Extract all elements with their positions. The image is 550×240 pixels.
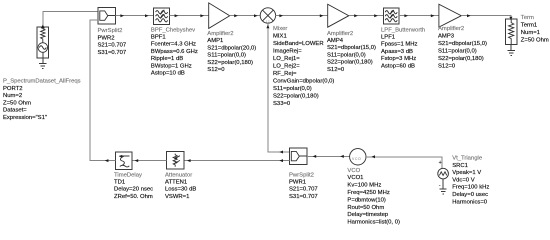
wire SRC1 to VCO1 [366, 155, 442, 168]
svg-text:Ripple=1 dB: Ripple=1 dB [151, 56, 183, 62]
svg-text:BWstop=1 GHz: BWstop=1 GHz [151, 63, 192, 69]
svg-text:Term1: Term1 [521, 23, 537, 29]
BPF1 value labels [151, 27, 198, 76]
svg-text:Rout=50 Ohm: Rout=50 Ohm [347, 205, 384, 211]
bandpass filter BPF1 [154, 8, 170, 25]
svg-text:ZRef=50. Ohm: ZRef=50. Ohm [114, 194, 153, 200]
svg-text:S12=0: S12=0 [438, 64, 456, 70]
svg-text:Fstop=3 MHz: Fstop=3 MHz [381, 56, 416, 62]
svg-text:Attenuator: Attenuator [165, 172, 192, 178]
amplifier AMP1 [209, 3, 230, 29]
svg-text:Vdc=0 V: Vdc=0 V [452, 177, 475, 183]
svg-text:Num=1: Num=1 [521, 30, 540, 36]
svg-text:Mixer: Mixer [273, 26, 287, 32]
power splitter PWR2 [98, 8, 115, 25]
svg-text:LO_Rej2=: LO_Rej2= [273, 64, 300, 70]
wire TD1 to PWR2 pin3 [90, 20, 115, 162]
wire PORT2 to PWR2 pin1 [43, 12, 98, 26]
attenuator ATTEN1 [166, 152, 183, 169]
time delay TD1 [115, 152, 132, 169]
svg-text:S22=polar(0,180): S22=polar(0,180) [207, 60, 253, 66]
svg-text:+: + [439, 160, 442, 166]
wire ATTEN1 to TD1 [132, 159, 166, 162]
svg-text:Kv=100 MHz: Kv=100 MHz [347, 183, 381, 189]
svg-text:Loss=30 dB: Loss=30 dB [165, 187, 196, 193]
svg-text:TimeDelay: TimeDelay [114, 172, 142, 178]
svg-text:S12=0: S12=0 [327, 67, 345, 73]
svg-text:S21=dbpolar(15,0): S21=dbpolar(15,0) [438, 41, 487, 47]
svg-text:S12=0: S12=0 [207, 67, 225, 73]
svg-text:VCO1: VCO1 [347, 175, 363, 181]
svg-text:S11=polar(0,0): S11=polar(0,0) [438, 49, 477, 55]
svg-text:Z=50 Ohm: Z=50 Ohm [3, 100, 31, 106]
termination Term1 [506, 19, 517, 45]
MIX1 value labels [273, 26, 334, 107]
ground of PORT2 [39, 58, 46, 68]
svg-text:S22=polar(0,180): S22=polar(0,180) [327, 60, 373, 66]
svg-text:Term: Term [521, 15, 534, 21]
amplifier AMP4 [328, 4, 349, 27]
power splitter PWR1 [290, 148, 307, 165]
svg-text:Amplifier2: Amplifier2 [438, 26, 464, 32]
svg-text:Delay=20 nsec: Delay=20 nsec [114, 187, 153, 193]
oscillator VCO1 [350, 149, 366, 165]
svg-text:S21=0.707: S21=0.707 [98, 43, 127, 49]
svg-text:Freq=100 kHz: Freq=100 kHz [452, 185, 489, 191]
wire PWR2 to BPF1 [115, 14, 153, 17]
ground of SRC1 [440, 179, 447, 194]
svg-text:S22=polar(0,180): S22=polar(0,180) [273, 94, 319, 100]
svg-text:PwrSplit2: PwrSplit2 [98, 28, 123, 34]
svg-text:Apass=3 dB: Apass=3 dB [381, 49, 413, 55]
wire BPF1 to AMP1 [169, 14, 208, 17]
svg-text:PWR2: PWR2 [98, 35, 115, 41]
svg-text:Fpass=1 MHz: Fpass=1 MHz [381, 42, 418, 48]
svg-text:TD1: TD1 [114, 180, 125, 186]
svg-text:LO_Rej1=: LO_Rej1= [273, 56, 300, 62]
svg-text:RF_Rej=: RF_Rej= [273, 71, 297, 77]
svg-text:Vpeak=1 V: Vpeak=1 V [452, 170, 481, 176]
svg-text:Fcenter=4.3 GHz: Fcenter=4.3 GHz [151, 42, 196, 48]
wire AMP3 to Term1 [462, 14, 513, 20]
svg-text:VSWR=1: VSWR=1 [165, 194, 189, 200]
wire AMP4 to LPF1 [349, 14, 384, 17]
svg-text:Num=2: Num=2 [3, 93, 22, 99]
svg-text:S21=dbpolar(20,0): S21=dbpolar(20,0) [207, 45, 256, 51]
svg-text:SRC1: SRC1 [452, 163, 468, 169]
svg-text:S31=0.707: S31=0.707 [98, 50, 127, 56]
svg-text:Dataset=: Dataset= [3, 108, 27, 114]
SRC1 value labels [452, 156, 489, 206]
svg-text:Delay=timestep: Delay=timestep [347, 212, 388, 218]
svg-text:S33=0: S33=0 [273, 101, 291, 107]
svg-text:ImageRej=: ImageRej= [273, 49, 302, 55]
svg-text:S31=0.707: S31=0.707 [289, 194, 318, 200]
svg-text:BPF_Chebyshev: BPF_Chebyshev [151, 27, 195, 33]
Term1 value labels [521, 15, 549, 43]
svg-text:-: - [439, 183, 441, 189]
svg-text:S21=0.707: S21=0.707 [289, 187, 318, 193]
lowpass filter LPF1 [383, 8, 399, 24]
svg-text:LPF1: LPF1 [381, 35, 395, 41]
svg-text:P=dbmtow(10): P=dbmtow(10) [347, 197, 386, 203]
wire MIX1 LO to PWR1 pin [266, 23, 289, 154]
svg-text:Freq=4250 MHz: Freq=4250 MHz [347, 190, 389, 196]
ATTEN1 value labels [165, 172, 196, 200]
svg-text:Amplifier2: Amplifier2 [327, 31, 353, 37]
svg-text:Delay=0 usec: Delay=0 usec [452, 192, 488, 198]
svg-text:S21=dbpolar(15,0): S21=dbpolar(15,0) [327, 45, 376, 51]
svg-text:BPF1: BPF1 [151, 35, 166, 41]
svg-text:Harmonics=list(0, 0): Harmonics=list(0, 0) [347, 220, 400, 225]
svg-text:AMP1: AMP1 [207, 38, 223, 44]
svg-text:S11=polar(0,0): S11=polar(0,0) [327, 52, 366, 58]
LPF1 value labels [381, 27, 425, 69]
TD1 value labels [114, 172, 153, 200]
svg-text:MIX1: MIX1 [273, 34, 287, 40]
svg-text:1 2: 1 2 [266, 19, 270, 23]
PORT2 value labels [3, 79, 81, 121]
svg-text:S22=polar(0,180): S22=polar(0,180) [438, 56, 484, 62]
svg-text:Expression="S1": Expression="S1" [3, 115, 47, 121]
svg-text:ATTEN1: ATTEN1 [165, 180, 187, 186]
PWR2 value labels [98, 28, 127, 56]
svg-text:PORT2: PORT2 [3, 86, 23, 92]
wire VCO1 to PWR1 [307, 155, 350, 158]
mixer MIX1 [260, 8, 275, 23]
svg-text:ConvGain=dbpolar(0,0): ConvGain=dbpolar(0,0) [273, 79, 334, 85]
svg-text:Z=50 Ohm: Z=50 Ohm [521, 37, 549, 43]
svg-text:VCO: VCO [347, 168, 360, 174]
wire MIX1 to AMP4 [275, 14, 327, 17]
svg-text:P_SpectrumDataset_AllFreqs: P_SpectrumDataset_AllFreqs [3, 79, 81, 85]
wire AMP1 to MIX1 [230, 14, 261, 17]
wire PWR1 to ATTEN1 [184, 159, 290, 162]
AMP3 value labels [438, 26, 487, 70]
AMP4 value labels [327, 31, 376, 73]
svg-text:S11=polar(0,0): S11=polar(0,0) [273, 86, 312, 92]
source SRC1 [438, 160, 449, 189]
source port PORT2 [37, 25, 49, 58]
svg-text:Astop=10 dB: Astop=10 dB [151, 71, 185, 77]
svg-text:BWpass=0.6 GHz: BWpass=0.6 GHz [151, 49, 198, 55]
svg-text:PwrSplit2: PwrSplit2 [289, 172, 314, 178]
svg-text:Harmonics=0: Harmonics=0 [452, 199, 488, 205]
svg-text:AMP3: AMP3 [438, 34, 455, 40]
svg-text:AMP4: AMP4 [327, 38, 344, 44]
svg-text:SideBand=LOWER: SideBand=LOWER [273, 41, 324, 47]
svg-text:Vt_Triangle: Vt_Triangle [452, 156, 483, 162]
svg-text:Amplifier2: Amplifier2 [207, 31, 233, 37]
amplifier AMP3 [439, 4, 461, 27]
svg-text:PWR1: PWR1 [289, 180, 306, 186]
svg-text:S11=polar(0,0): S11=polar(0,0) [207, 53, 246, 59]
PWR1 value labels [289, 172, 318, 200]
svg-text:LPF_Butterworth: LPF_Butterworth [381, 27, 425, 33]
ground of Term1 [508, 45, 515, 56]
svg-text:Astop=60 dB: Astop=60 dB [381, 63, 415, 69]
VCO1 value labels [347, 168, 400, 226]
AMP1 value labels [207, 31, 256, 73]
wire LPF1 to AMP3 [399, 14, 439, 17]
svg-text:VCO: VCO [352, 157, 361, 161]
